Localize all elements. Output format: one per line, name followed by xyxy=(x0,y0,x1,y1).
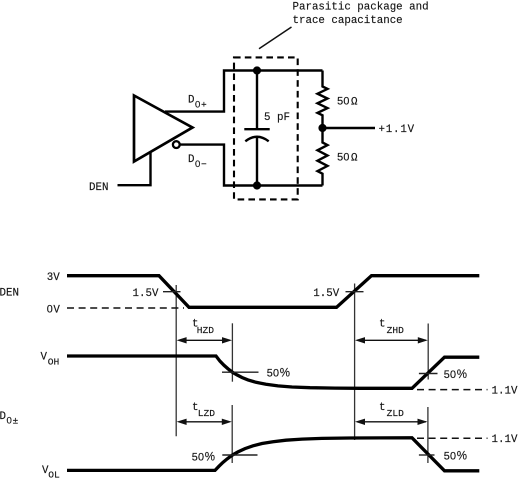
svg-text:D: D xyxy=(188,154,194,166)
vertical guide VL3 (DEN rising 1.5V) xyxy=(354,284,356,441)
svg-text:1.5V: 1.5V xyxy=(313,288,339,300)
svg-text:trace capacitance: trace capacitance xyxy=(293,15,403,27)
t_LZD arrow xyxy=(177,419,232,425)
svg-text:t: t xyxy=(379,402,385,414)
vertical guide VL4b (VOL 50% fall) xyxy=(427,407,429,463)
svg-text:0±: 0± xyxy=(7,416,19,427)
svg-text:50Ω: 50Ω xyxy=(337,152,358,165)
svg-text:0V: 0V xyxy=(47,304,61,317)
svg-text:t: t xyxy=(379,318,385,330)
vertical guide VL2b (VOL 50% rise) xyxy=(231,405,233,463)
wire: D0- output to bottom rail xyxy=(180,145,323,186)
0V dashed line xyxy=(67,307,184,309)
driver U1 (triangle buffer) xyxy=(134,96,193,162)
svg-text:D: D xyxy=(188,94,194,106)
wire: D0+ output to top rail xyxy=(165,71,323,112)
svg-text:OL: OL xyxy=(48,469,60,480)
svg-text:ZLD: ZLD xyxy=(387,408,405,419)
vertical guide VL1 (DEN falling 1.5V) xyxy=(175,285,177,436)
svg-text:ZHD: ZHD xyxy=(387,325,405,336)
svg-text:1.5V: 1.5V xyxy=(133,288,159,300)
resistor R2 50ohm (bottom) xyxy=(318,128,328,186)
1.5V tick left xyxy=(163,291,181,293)
vertical guide VL2a (VOH 50% fall) xyxy=(231,323,233,381)
svg-text:LZD: LZD xyxy=(198,408,216,419)
VOH waveform xyxy=(67,356,479,388)
svg-text:1.1V: 1.1V xyxy=(492,386,518,398)
svg-text:1.1V: 1.1V xyxy=(492,434,518,446)
leader line to dashed box xyxy=(259,27,292,49)
svg-text:DEN: DEN xyxy=(0,288,19,300)
svg-text:3V: 3V xyxy=(47,272,60,284)
resistor R1 50ohm (top) xyxy=(318,71,328,129)
junction dot top rail xyxy=(253,66,261,74)
capacitor C1 bottom lead xyxy=(256,137,258,186)
svg-text:5 pF: 5 pF xyxy=(264,112,290,124)
svg-text:DEN: DEN xyxy=(89,182,108,194)
DEN waveform xyxy=(67,276,479,308)
wire to +1.1V xyxy=(323,127,376,129)
svg-text:50Ω: 50Ω xyxy=(337,96,358,109)
svg-text:Parasitic package and: Parasitic package and xyxy=(293,2,429,14)
junction dot resistor midpoint xyxy=(318,124,326,132)
capacitor C1 top lead xyxy=(256,71,258,130)
svg-text:50%: 50% xyxy=(192,451,215,464)
50% tick top-left xyxy=(222,371,259,373)
svg-text:D: D xyxy=(0,411,6,423)
vertical guide VL4a (VOH 50% rise) xyxy=(427,324,429,380)
junction dot bottom rail xyxy=(253,181,261,189)
svg-text:OH: OH xyxy=(48,357,60,368)
svg-text:0+: 0+ xyxy=(195,99,207,110)
capacitor C1 curved plate xyxy=(245,137,268,142)
wire: DEN input xyxy=(118,152,151,185)
1.5V tick right xyxy=(346,291,364,293)
capacitor C1 top plate xyxy=(244,128,269,130)
inversion bubble on D0- xyxy=(173,141,180,148)
VOL waveform xyxy=(67,438,479,471)
svg-text:HZD: HZD xyxy=(197,325,215,336)
1.1V dashed line (upper) xyxy=(417,389,488,391)
t_HZD arrow xyxy=(177,337,232,343)
50% tick top-right xyxy=(419,373,438,375)
svg-text:50%: 50% xyxy=(444,450,467,463)
svg-text:50%: 50% xyxy=(267,367,290,380)
svg-text:0−: 0− xyxy=(195,159,207,170)
svg-text:50%: 50% xyxy=(444,369,467,382)
50% tick bottom-left xyxy=(222,454,257,456)
50% tick bottom-right xyxy=(419,454,435,456)
svg-text:V: V xyxy=(41,352,48,364)
1.1V dashed line (lower) xyxy=(417,437,488,439)
dashed box (parasitic capacitance) xyxy=(234,57,298,199)
svg-text:+1.1V: +1.1V xyxy=(379,124,415,136)
t_ZHD arrow xyxy=(355,337,428,343)
t_ZLD arrow xyxy=(355,419,428,425)
